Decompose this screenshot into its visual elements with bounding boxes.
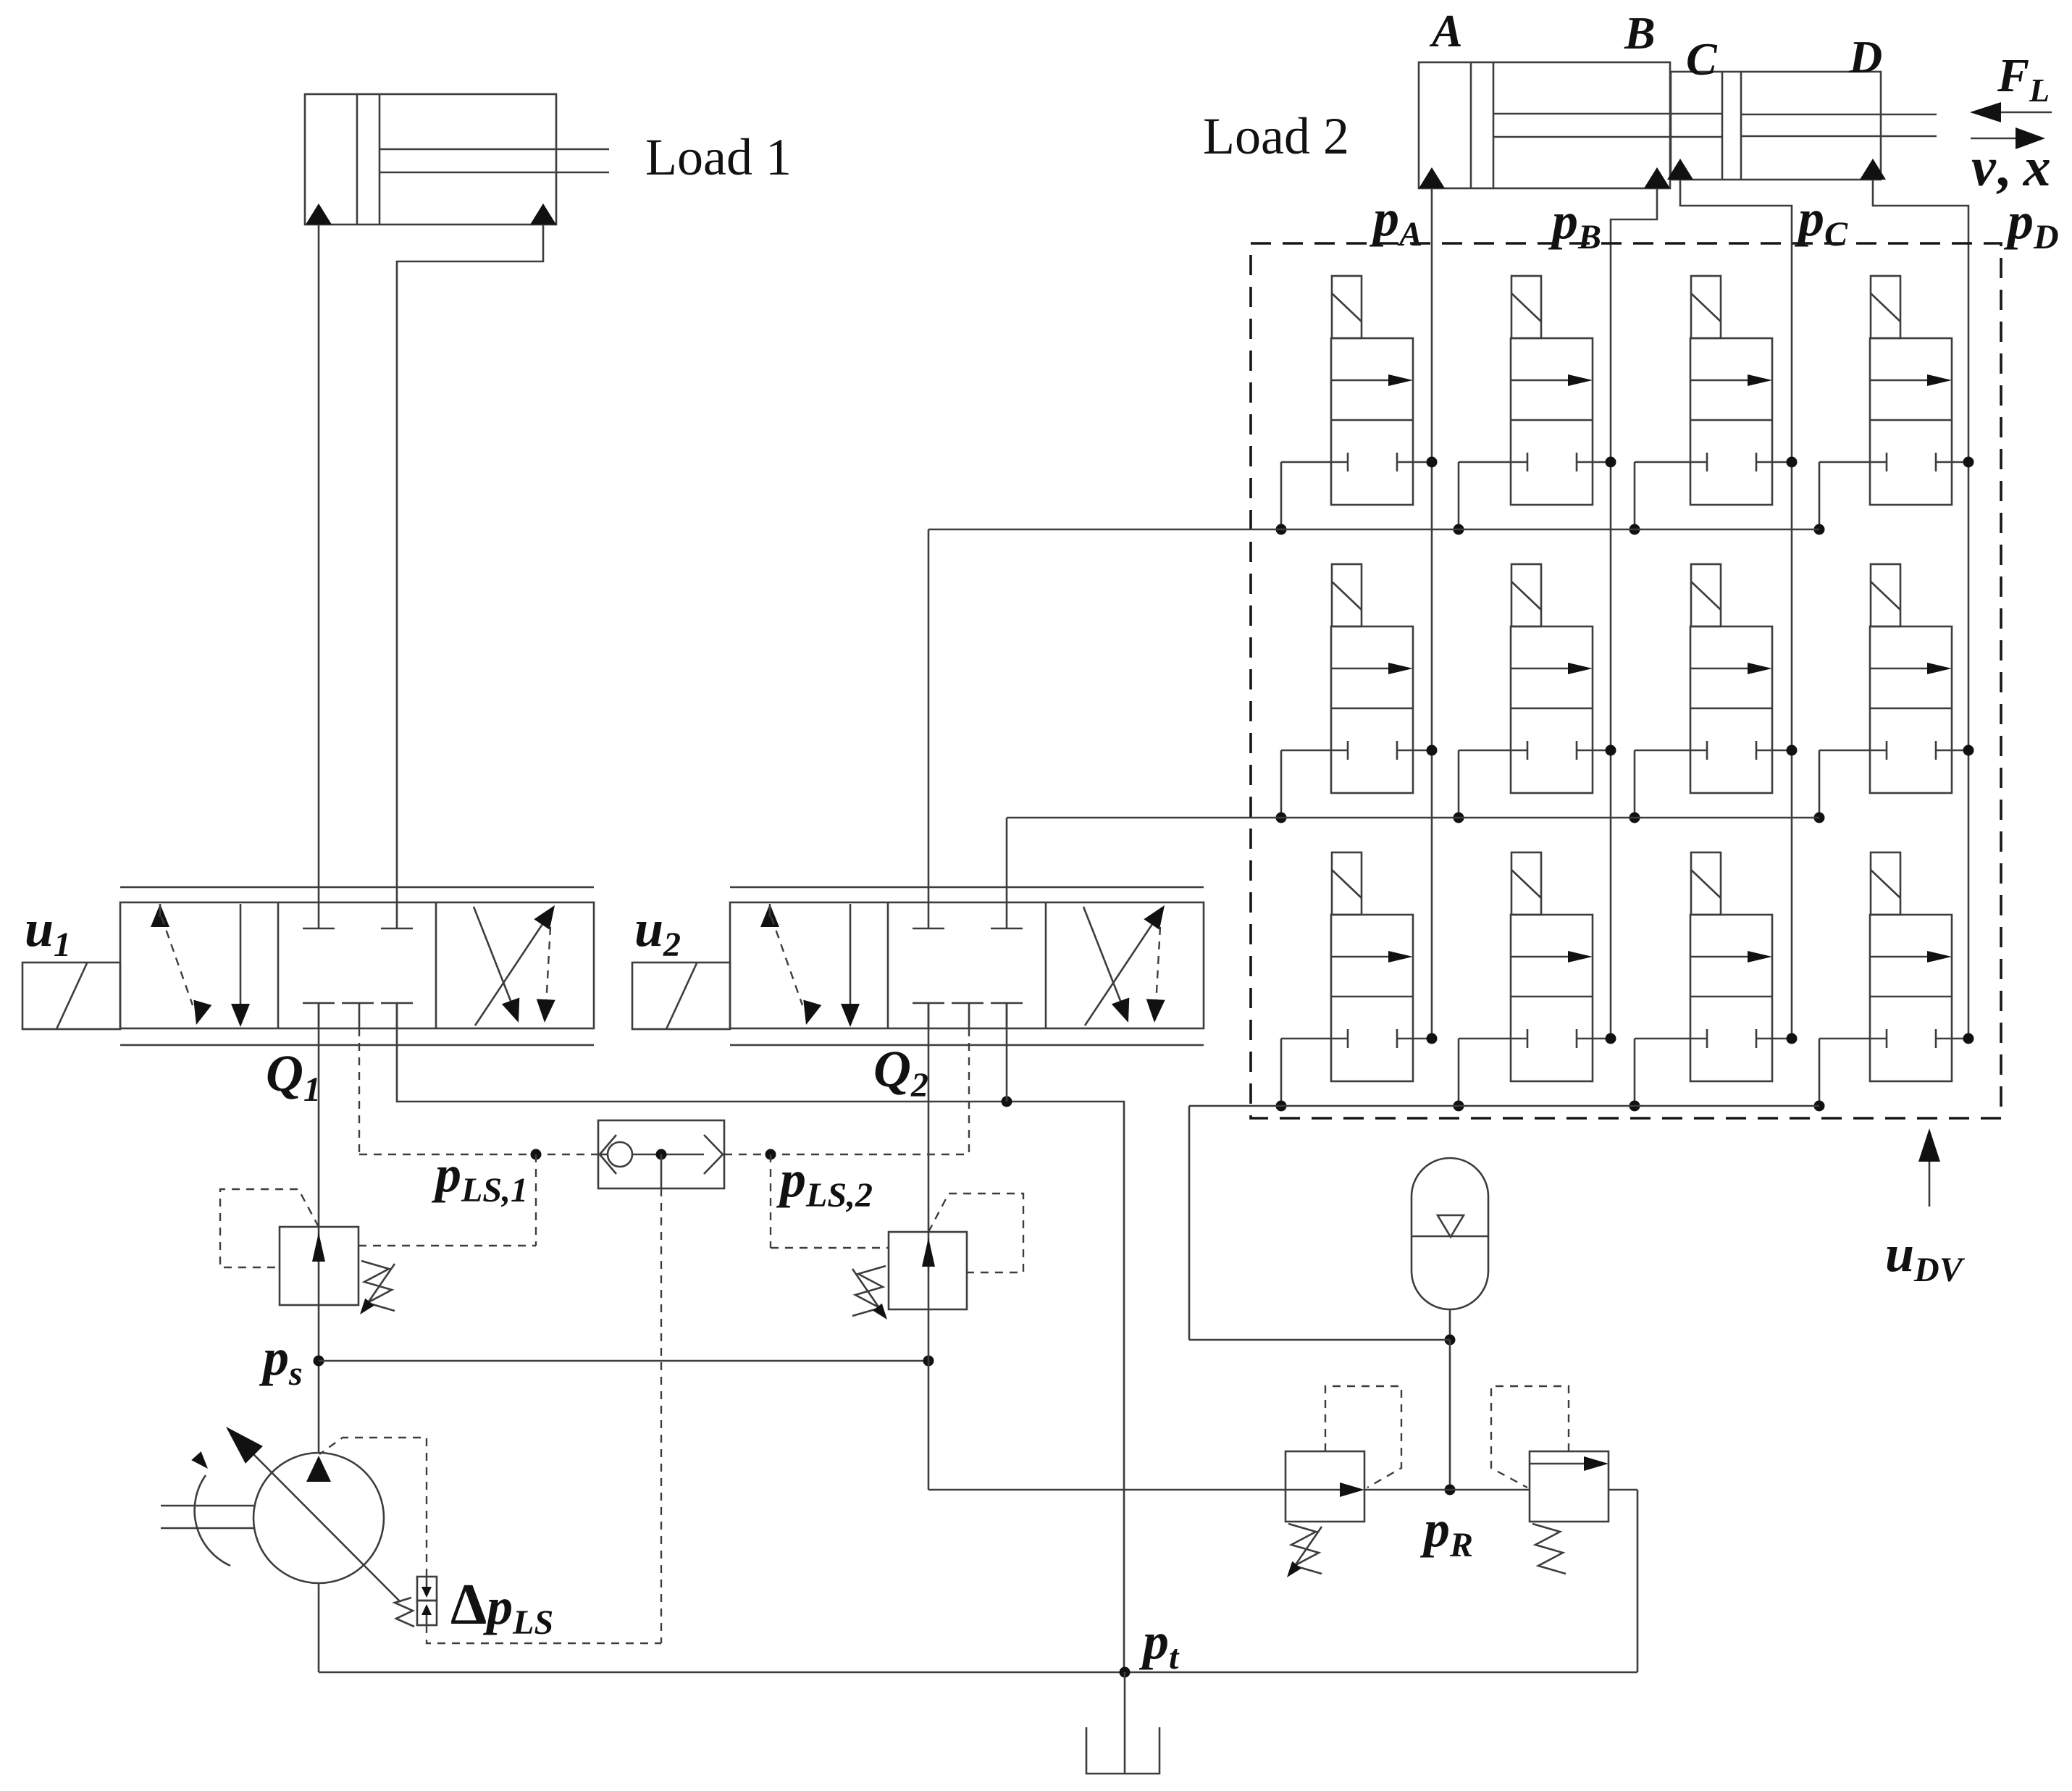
svg-text:C: C <box>1686 33 1718 85</box>
svg-text:v, x: v, x <box>1971 137 2051 198</box>
svg-text:A: A <box>1429 5 1463 56</box>
svg-text:Load 1: Load 1 <box>645 128 792 186</box>
svg-text:D: D <box>1848 31 1882 83</box>
svg-text:B: B <box>1624 7 1656 59</box>
svg-text:Load 2: Load 2 <box>1203 107 1349 165</box>
